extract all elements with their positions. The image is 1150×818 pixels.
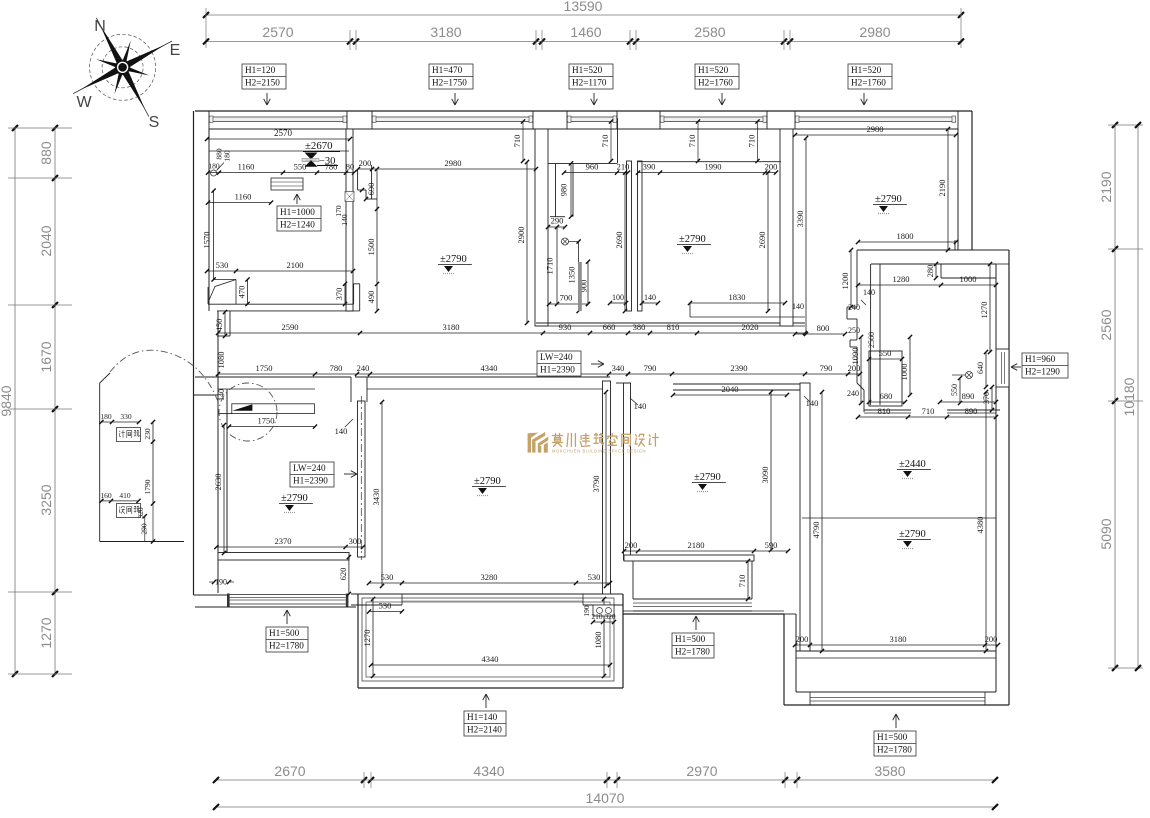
window label box H1=500 bedroom1 [266,610,308,652]
svg-text:710: 710 [737,575,747,588]
top wall window glazing [209,116,956,123]
svg-text:LW=240: LW=240 [540,352,573,362]
dim 1570 vertical [202,189,216,282]
svg-text:H1=2390: H1=2390 [293,476,328,486]
svg-text:140: 140 [792,302,804,311]
svg-text:2190: 2190 [1098,171,1114,202]
bath bottom wall [864,410,1000,413]
svg-text:±2790: ±2790 [474,476,501,487]
window depth dims 710 [512,119,760,163]
exterior bottom-right wall [784,692,1009,705]
svg-text:1570: 1570 [202,232,212,249]
dim 2900 vertical [516,160,529,325]
svg-text:1500: 1500 [366,239,376,256]
svg-text:H1=2390: H1=2390 [540,365,575,375]
svg-text:190: 190 [582,605,591,617]
svg-text:1270: 1270 [979,302,989,319]
dims 2590 3180 930 660 380 810 2020 row [216,322,807,335]
bedroom1 dims [213,423,365,555]
svg-text:2690: 2690 [757,232,767,249]
shower tray [869,351,902,406]
svg-text:530: 530 [379,601,392,611]
svg-text:3430: 3430 [371,489,381,506]
bath inner left wall [871,264,880,405]
bedroom1 left wall [218,377,227,593]
bedroom2 top wall [616,383,805,390]
window label box H1=1000/H2=1240 [277,194,321,231]
svg-text:200: 200 [848,363,861,373]
svg-text:4340: 4340 [481,363,498,373]
svg-text:790: 790 [644,363,657,373]
svg-text:2570: 2570 [274,128,293,138]
dim 370 vertical [334,282,347,306]
svg-text:1090: 1090 [850,348,860,365]
window label box H1=500 bedroom2 [672,616,714,658]
svg-text:2980: 2980 [859,24,890,40]
svg-text:H1=520: H1=520 [851,65,882,75]
svg-text:490: 490 [366,291,376,304]
svg-text:140: 140 [340,214,349,226]
svg-text:MOKCHUEN BUILDING SPACE DESIGN: MOKCHUEN BUILDING SPACE DESIGN [552,449,646,454]
kitchen right wall [780,129,793,326]
svg-text:280: 280 [925,265,935,278]
svg-text:±2790: ±2790 [875,194,902,205]
dims 1080 450 140 left wall [216,352,226,402]
svg-text:1750: 1750 [256,363,273,373]
electrical box dims [99,412,155,544]
svg-text:890: 890 [965,406,978,416]
level marker +-2790 bedroom3 [873,194,907,214]
watermark logo icon [528,432,549,453]
svg-text:H1=140: H1=140 [467,712,498,722]
svg-text:LW=240: LW=240 [293,463,326,473]
svg-text:590: 590 [765,540,778,550]
bottom overall dimension chain 14070 [213,790,998,810]
bedroom2 bottom wall [624,555,754,561]
svg-text:4340: 4340 [473,763,504,779]
svg-text:80: 80 [346,162,355,172]
watermark chinese text mo-chuan-jian-zhu-kong-jian-she-ji [553,434,659,447]
balcony outer walls [358,594,623,688]
dims 170 140 small [334,188,368,226]
svg-text:±2790: ±2790 [899,529,926,540]
svg-text:2560: 2560 [867,332,876,348]
svg-text:550: 550 [950,384,959,396]
svg-text:880: 880 [38,141,54,165]
svg-text:H1=500: H1=500 [877,732,908,742]
right dimension chain segments [1098,122,1143,671]
dims 1160 lower [206,192,273,205]
svg-text:3580: 3580 [874,763,905,779]
svg-text:710: 710 [922,406,935,416]
svg-text:690: 690 [366,183,376,196]
living room dims [335,390,647,588]
level marker +-2790 kitchen [677,234,711,254]
corner jog walls [358,165,377,199]
svg-text:2630: 2630 [213,474,223,491]
svg-text:H2=1780: H2=1780 [675,647,710,657]
svg-text:960: 960 [586,162,599,172]
bedroom2 left wall [624,383,631,560]
svg-text:180: 180 [223,150,232,162]
svg-text:1350: 1350 [567,267,577,284]
svg-text:2190: 2190 [937,180,947,197]
bedroom2 bay window [633,561,752,611]
svg-text:1790: 1790 [143,479,152,494]
svg-text:240: 240 [357,363,370,373]
svg-text:H2=2150: H2=2150 [245,78,280,88]
svg-text:100: 100 [612,293,624,302]
svg-text:2390: 2390 [731,363,748,373]
bathroom right wall [627,161,643,311]
svg-text:620: 620 [338,568,348,581]
svg-text:230: 230 [143,428,152,440]
svg-text:200: 200 [359,158,372,168]
dining room top dims [205,128,356,176]
kitchen counter notch [690,303,805,317]
svg-text:±2790: ±2790 [281,493,308,504]
living room to balcony wall [351,594,623,605]
svg-text:290: 290 [140,523,149,535]
exterior left wall upper [194,111,231,595]
dim 450 vertical [214,310,227,338]
svg-text:±2790: ±2790 [440,254,467,265]
entry cabinet [232,404,315,414]
svg-text:3390: 3390 [795,211,805,228]
svg-text:340: 340 [612,363,625,373]
bedroom1 bottom wall [218,553,349,561]
svg-text:2900: 2900 [516,227,526,244]
svg-text:3180: 3180 [430,24,461,40]
svg-text:1990: 1990 [705,162,722,172]
svg-text:2370: 2370 [275,536,292,546]
svg-text:240: 240 [848,303,860,312]
svg-text:1000: 1000 [899,364,909,381]
svg-text:2570: 2570 [262,24,293,40]
exterior step to right wing [955,240,958,250]
window label box H1=140 balcony [464,694,506,736]
svg-text:1280: 1280 [893,274,910,284]
svg-text:2590: 2590 [282,322,299,332]
corridor wall right part [351,377,610,402]
svg-text:2980: 2980 [867,124,884,134]
svg-text:200: 200 [796,634,809,644]
svg-text:1710: 1710 [545,258,555,275]
dim 1750 entry [227,416,317,429]
svg-text:2690: 2690 [614,232,624,249]
left dimension chain segments [8,125,72,677]
bottom-right room bottom wall [796,651,996,658]
svg-text:2040: 2040 [38,225,54,256]
level marker +-2790 living2 [897,529,931,549]
bedroom2 right wall [800,383,810,651]
bedroom2 top dims [626,363,862,408]
top rooms bottom wall [536,323,805,326]
svg-text:450: 450 [214,319,224,332]
svg-text:4790: 4790 [811,522,821,539]
svg-text:E: E [170,42,181,59]
exterior right wall upper [958,111,972,250]
svg-text:4380: 4380 [975,517,985,534]
window label box H1=120/H2=2150 [242,64,286,105]
LW box bedroom1 [290,462,357,487]
svg-text:H2=1750: H2=1750 [432,78,467,88]
bathroom left wall [535,129,548,326]
svg-text:140: 140 [863,288,875,297]
top-right bedroom dims [793,124,958,336]
level marker +-2670 with -30 [302,140,340,167]
dim 1830 kitchen [688,288,875,305]
balcony dims [362,597,612,678]
svg-text:2670: 2670 [274,763,305,779]
right wall window H1=960 [996,349,1009,387]
bedroom2 dims [622,390,790,601]
svg-text:330: 330 [120,412,132,421]
svg-text:680: 680 [880,391,893,401]
svg-text:700: 700 [560,293,573,303]
window label box H1=960/H2=1290 [1011,353,1068,378]
svg-text:H1=960: H1=960 [1025,354,1056,364]
svg-text:H2=1780: H2=1780 [877,745,912,755]
corridor wall left part [195,377,351,389]
weak current box [117,504,141,518]
window label box H1=470/H2=1750 [429,64,473,105]
svg-text:190: 190 [215,578,227,587]
svg-text:390: 390 [643,162,656,172]
svg-text:±2670: ±2670 [305,140,333,152]
svg-text:1800: 1800 [897,231,914,241]
bottom-right room dims [793,390,1000,653]
svg-text:1160: 1160 [238,162,255,172]
svg-text:3180: 3180 [443,322,460,332]
dims 690 1500 490 vertical [366,167,379,313]
svg-text:710: 710 [747,135,757,148]
bathroom niche walls [550,163,573,216]
svg-text:140: 140 [644,293,656,302]
level marker +-2790 dining [438,254,472,274]
bottom-right wing left wall [784,614,796,705]
svg-text:1080: 1080 [593,632,603,649]
svg-text:210: 210 [591,612,603,621]
svg-text:1830: 1830 [729,292,746,302]
svg-text:W: W [76,94,92,111]
svg-text:H2=1240: H2=1240 [280,220,315,230]
balcony washer [582,605,616,624]
electrical panel detail outline [100,373,184,542]
svg-text:4340: 4340 [482,654,499,664]
living room left wall [358,396,366,560]
svg-text:2970: 2970 [686,763,717,779]
svg-text:S: S [149,114,160,131]
svg-text:1270: 1270 [38,617,54,648]
svg-text:H1=520: H1=520 [572,65,603,75]
svg-text:200: 200 [625,540,638,550]
dim 200 and 2980 dining top [356,158,538,171]
window label box H1=520/H2=1760 [848,64,892,105]
level marker +-2790 bedroom2 [692,472,726,492]
exterior right wall lower [996,250,1009,705]
level marker +-2790 bedroom1 [279,493,313,513]
strong current box [117,428,141,442]
dining wall vent symbol [345,192,354,202]
svg-text:3180: 3180 [890,634,907,644]
svg-text:980: 980 [559,184,569,197]
svg-text:H2=1290: H2=1290 [1025,367,1060,377]
bathroom upper niche [548,118,618,163]
svg-text:930: 930 [559,322,572,332]
dim 470 vertical [237,277,250,306]
svg-text:H2=1760: H2=1760 [851,78,886,88]
svg-text:290: 290 [551,216,564,226]
bath area top dims [792,248,998,354]
svg-text:2580: 2580 [694,24,725,40]
svg-text:320: 320 [604,612,616,621]
svg-text:200: 200 [765,162,778,172]
svg-text:240: 240 [847,389,859,398]
svg-text:3790: 3790 [591,476,601,493]
dims under bedroom1 [209,555,612,596]
svg-text:1200: 1200 [840,273,850,290]
svg-text:H1=120: H1=120 [245,65,276,75]
svg-text:9840: 9840 [0,385,14,416]
dining room right wall [346,129,353,311]
svg-text:±2790: ±2790 [679,234,706,245]
top-left room storage bottom [208,284,360,336]
svg-text:780: 780 [330,363,343,373]
svg-text:3280: 3280 [481,572,498,582]
svg-text:300: 300 [349,536,362,546]
svg-text:530: 530 [588,572,601,582]
kitchen top wall line [638,161,781,163]
LW box corridor right [537,351,604,376]
svg-text:3250: 3250 [38,484,54,515]
kitchen cabinet top-left room [271,178,303,190]
svg-text:H2=1760: H2=1760 [698,78,733,88]
svg-text:660: 660 [603,322,616,332]
dim 530 balcony left [367,601,404,614]
bottom dimension chain segments [213,763,998,788]
svg-text:H2=1780: H2=1780 [269,641,304,651]
storage shoe cabinet [208,280,236,305]
window label box H1=500 bottom right [874,714,916,756]
svg-text:550: 550 [879,348,892,358]
balcony glazing [362,598,614,681]
svg-text:1000: 1000 [960,274,977,284]
living room right wall [603,381,611,594]
bath inner top wall [871,264,996,278]
svg-text:410: 410 [119,491,131,500]
svg-text:H2=2140: H2=2140 [467,725,502,735]
svg-text:800: 800 [817,323,830,333]
bathroom kitchen divider dims [614,162,778,314]
svg-text:640: 640 [976,362,985,374]
top dimension chain segments [203,24,964,50]
svg-text:H1=500: H1=500 [269,628,300,638]
right overall dimension chain 10180 [1121,122,1141,671]
svg-text:H2=1170: H2=1170 [572,78,607,88]
svg-text:380: 380 [633,322,646,332]
corridor dims row [216,363,630,376]
svg-text:710: 710 [512,135,522,148]
svg-text:710: 710 [600,135,610,148]
svg-text:1670: 1670 [38,341,54,372]
svg-text:2180: 2180 [688,540,705,550]
dims 530 2100 [205,260,355,273]
svg-text:2040: 2040 [722,384,739,394]
svg-text:H1=520: H1=520 [698,65,729,75]
svg-text:±2790: ±2790 [694,472,721,483]
svg-text:1750: 1750 [258,416,275,426]
room1 bulkhead line [209,150,349,152]
bath area lower dims [847,335,998,419]
svg-text:210: 210 [617,162,630,172]
svg-text:710: 710 [687,135,697,148]
svg-text:2100: 2100 [287,260,304,270]
svg-text:810: 810 [878,406,891,416]
svg-text:3090: 3090 [760,467,770,484]
svg-text:14070: 14070 [586,790,625,806]
svg-text:140: 140 [335,426,348,436]
left overall dimension chain 9840 [0,125,18,677]
bathroom dims [545,161,661,313]
svg-text:370: 370 [334,288,344,301]
exterior top wall [195,111,972,129]
svg-text:2980: 2980 [445,158,462,168]
window label box H1=520/H2=1760 [695,64,739,105]
svg-text:±2440: ±2440 [899,459,926,470]
watermark english text [552,449,646,454]
svg-text:H1=470: H1=470 [432,65,463,75]
svg-text:2560: 2560 [1098,309,1114,340]
svg-text:550: 550 [294,162,307,172]
level marker +-2440 dining2 [897,459,931,479]
svg-text:470: 470 [237,286,247,299]
svg-text:160: 160 [100,491,112,500]
svg-text:H1=500: H1=500 [675,634,706,644]
svg-text:1160: 1160 [235,192,252,202]
compass rose north arrow [47,0,198,143]
svg-text:200: 200 [985,634,998,644]
svg-text:5090: 5090 [1098,518,1114,549]
svg-text:790: 790 [820,363,833,373]
bedroom1 bay window [195,594,356,608]
svg-text:890: 890 [962,391,975,401]
svg-text:250: 250 [848,326,860,335]
svg-text:370: 370 [982,392,991,404]
svg-text:1080: 1080 [216,352,226,369]
svg-text:10180: 10180 [1121,377,1137,416]
bedroom1 top wall line [218,413,232,415]
svg-text:H1=1000: H1=1000 [280,207,315,217]
svg-text:530: 530 [381,572,394,582]
overall top dimension chain 13590 [203,0,964,48]
svg-text:530: 530 [216,260,229,270]
window label box H1=520/H2=1170 [569,64,613,105]
svg-text:13590: 13590 [564,0,603,14]
dining living divider line [802,517,996,519]
svg-text:180: 180 [100,412,112,421]
bottom wing step wall [623,611,784,614]
bath area partition walls [847,250,864,412]
svg-text:1270: 1270 [362,630,372,647]
top-right bedroom bottom wall [857,249,1009,251]
svg-text:2020: 2020 [742,322,759,332]
entry detail cloud [110,350,277,441]
svg-text:810: 810 [667,322,680,332]
svg-text:880: 880 [215,148,224,160]
svg-text:1460: 1460 [570,24,601,40]
living room level [472,476,506,496]
